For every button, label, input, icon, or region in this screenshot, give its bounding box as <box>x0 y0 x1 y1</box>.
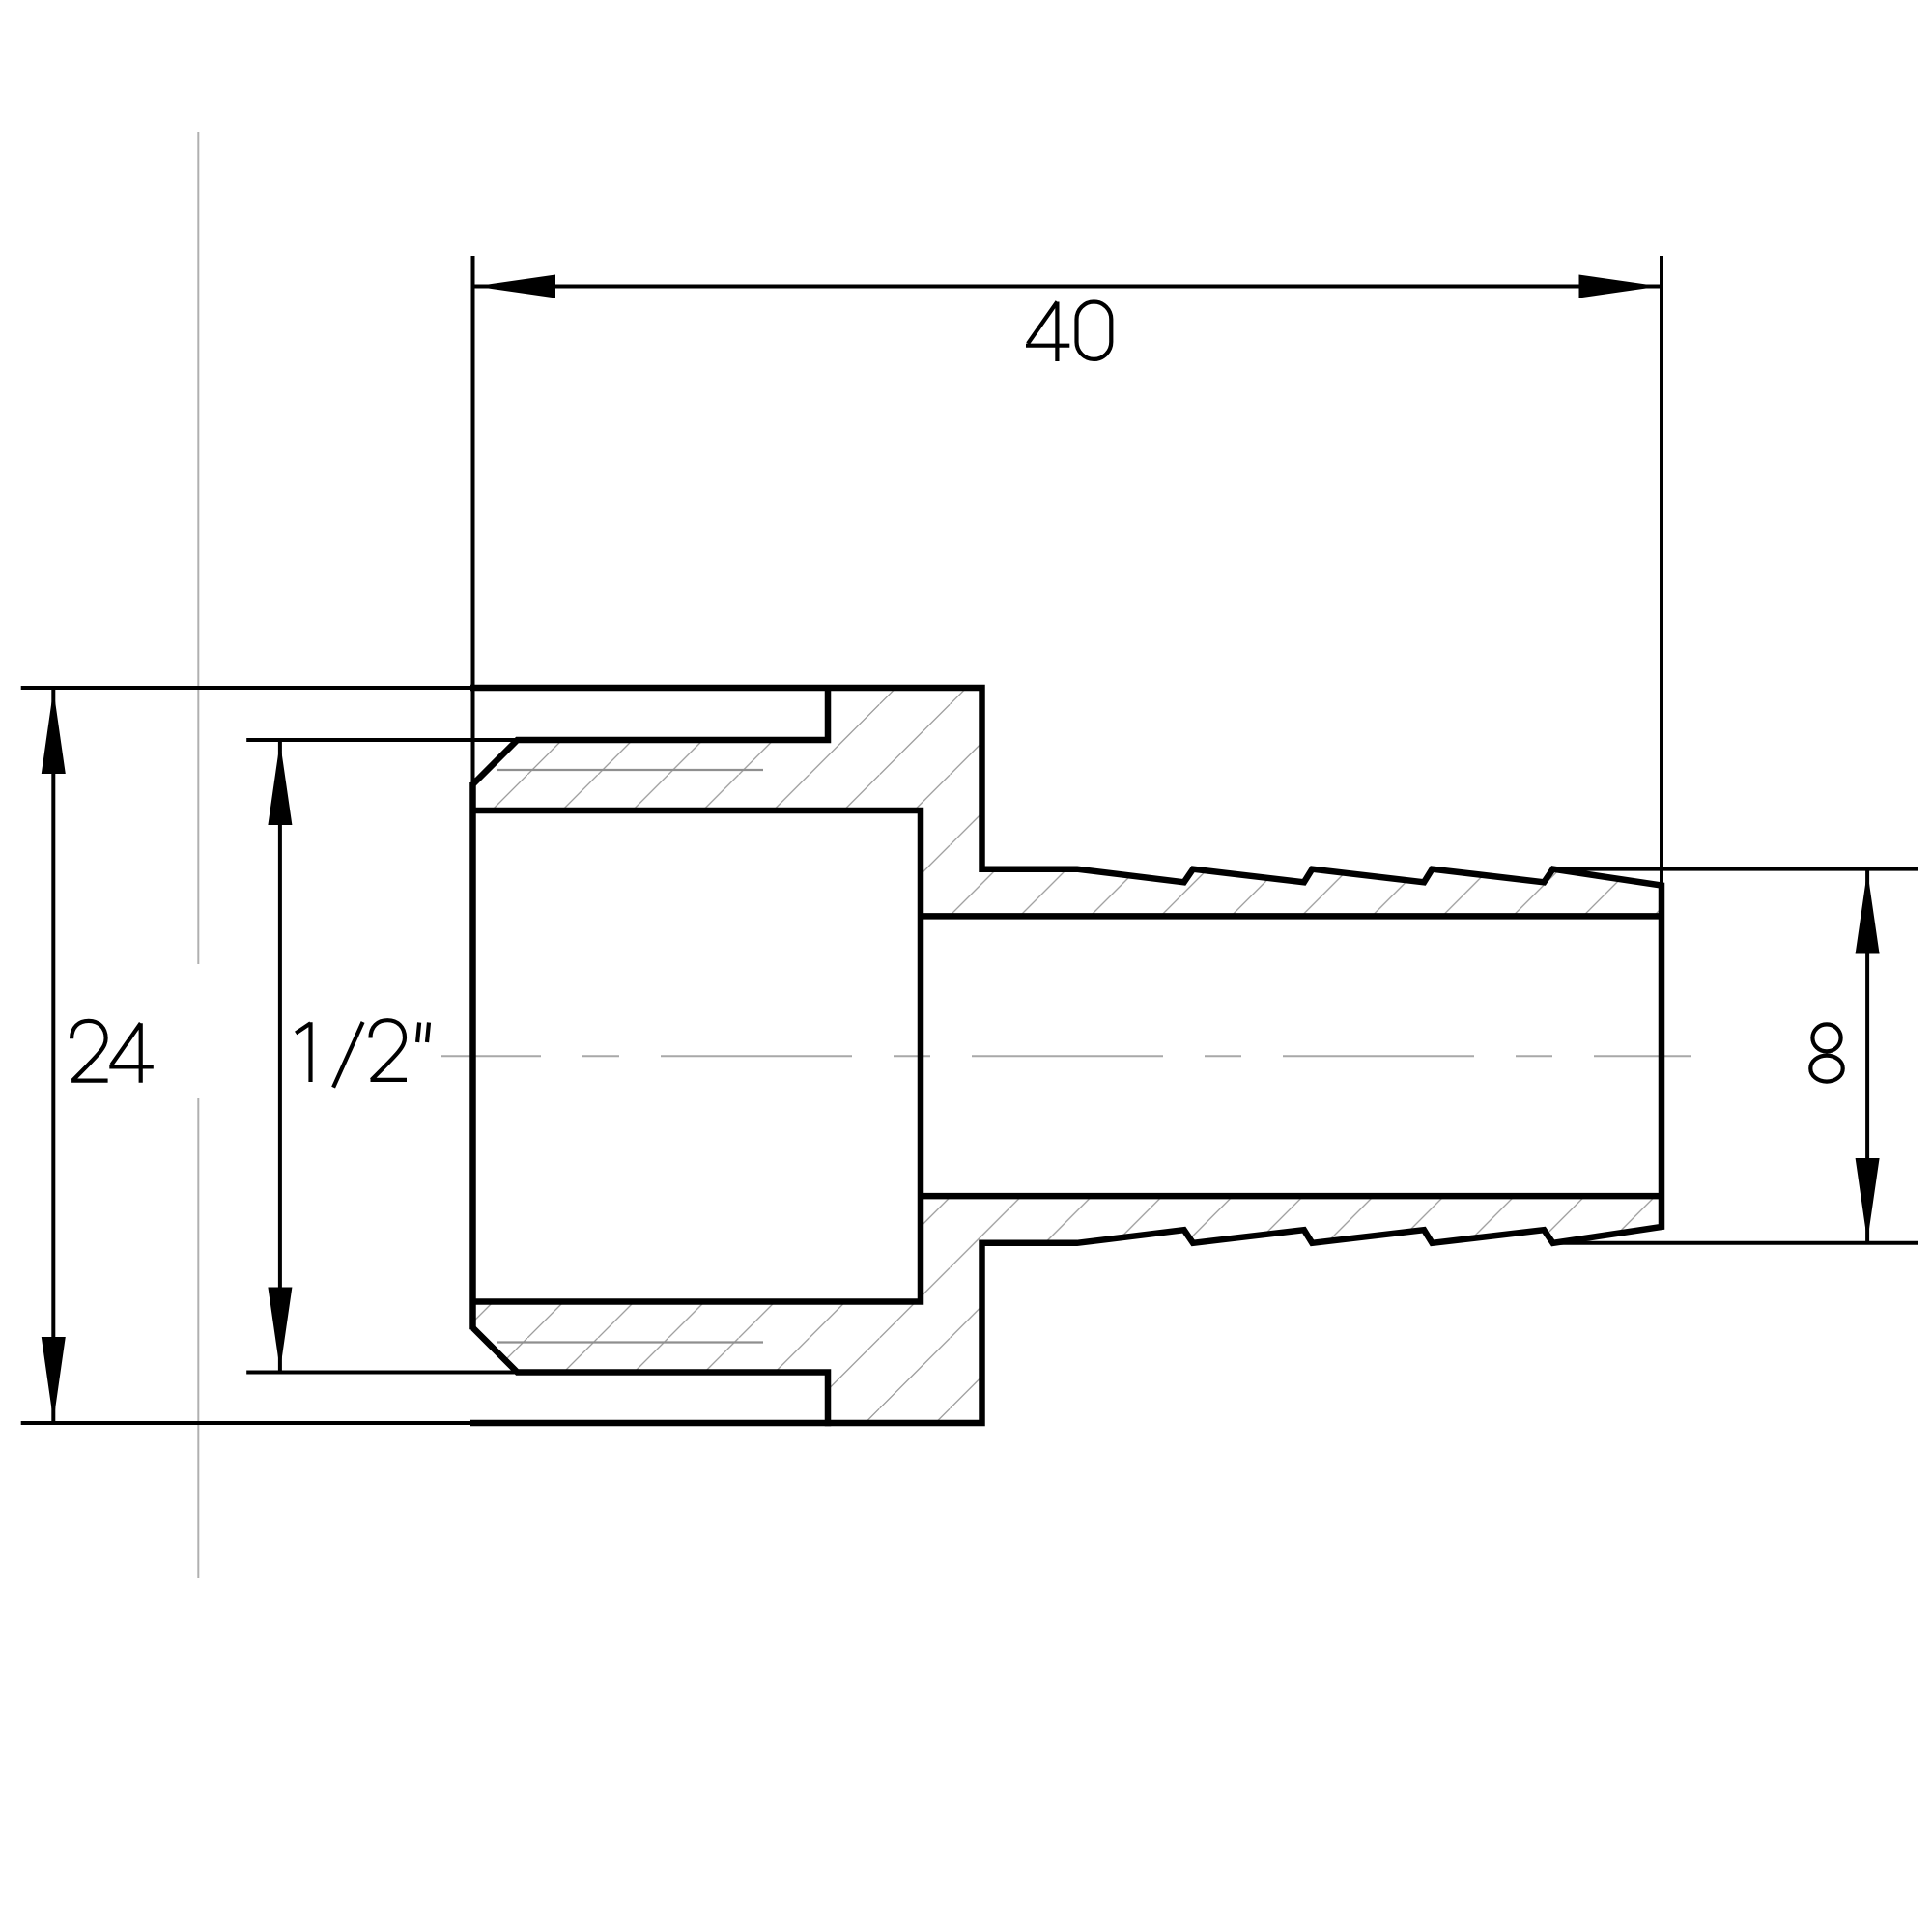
thread profile bottom: entry chamfer, major line, end wall <box>473 1328 829 1427</box>
dim 40: extension lines <box>471 256 475 782</box>
arrow 1/2 bottom <box>268 1288 292 1371</box>
dim 24: dimension line <box>51 689 55 1422</box>
arrow 40 right <box>1579 275 1660 298</box>
text "24" <box>71 1021 154 1083</box>
arrow 24 top <box>42 690 66 774</box>
arrow 1/2 top <box>268 742 292 825</box>
dim 1/2": dimension line <box>278 741 282 1372</box>
text "8" <box>1810 1024 1842 1081</box>
part outline: outer boundary with hose-barb sawtooth <box>470 688 1662 1423</box>
hatch upper half-section <box>473 688 1662 916</box>
text "1/2&quot;" <box>296 1020 429 1087</box>
thread profile top: end wall, major line, entry chamfer <box>473 685 829 784</box>
dim 1/2": extension lines <box>246 738 519 742</box>
cosmetic thread line bottom <box>497 1341 763 1343</box>
text "40" <box>1026 302 1111 362</box>
left face edge <box>469 782 476 1329</box>
arrow 8 top <box>1856 870 1880 953</box>
cosmetic thread line top <box>497 769 763 771</box>
dim 24: extension lines <box>21 686 470 690</box>
counterbore: top line, flat end wall, bottom line <box>473 808 922 1305</box>
hatch lower half-section <box>473 1196 1662 1423</box>
centerline (horizontal dash-dot axis) <box>441 1055 1691 1057</box>
arrow 8 bottom <box>1856 1158 1880 1241</box>
arrow 40 left <box>475 275 555 298</box>
arrow 24 bottom <box>42 1337 66 1421</box>
dim 40: dimension line <box>474 285 1661 289</box>
dimension text (drawn as strokes to match light CAD font) <box>71 302 1843 1088</box>
arrowheads <box>42 275 1880 1422</box>
dim 8: dimension line <box>1865 870 1869 1242</box>
dimension lines and extension lines <box>21 256 1918 1423</box>
barb bore silhouette lines <box>921 916 1662 1196</box>
dim 8: extension lines <box>1553 867 1918 871</box>
construction line (vertical, light gray, left) <box>197 132 199 1578</box>
